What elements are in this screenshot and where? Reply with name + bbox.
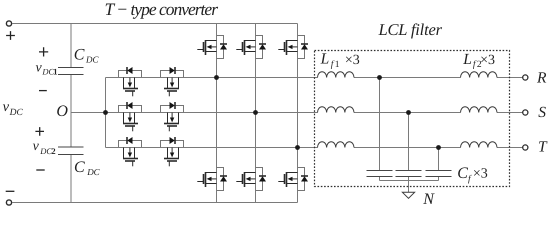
wire phase line R [106, 77, 523, 79]
svg-text:DC: DC [85, 55, 99, 65]
wire filter cap branch 1 [379, 78, 381, 181]
wire filter cap branch 2 [408, 113, 410, 181]
svg-text:v: v [33, 139, 40, 154]
mosfet Q6 (leg3 bottom switch) [278, 168, 308, 191]
svg-text:O: O [56, 103, 68, 120]
svg-text:2: 2 [51, 146, 55, 156]
node leg2 phase tap [253, 110, 258, 115]
mosfet Q4 (leg1 bottom switch) [197, 168, 227, 191]
svg-text:N: N [422, 191, 435, 208]
label plus vDC2 [35, 127, 44, 136]
inductor Lf2 phase T [461, 142, 497, 148]
label plus vDC1 [39, 47, 48, 56]
svg-text:×3: ×3 [480, 53, 495, 68]
inductor Lf1 phase R [318, 72, 354, 78]
mosfet Q7 (row R bidirectional left) [119, 67, 142, 96]
wire DC link vertical [70, 24, 72, 203]
terminal S [523, 110, 528, 115]
node leg3 phase tap [295, 145, 300, 150]
label minus vDC2 [36, 169, 44, 171]
LCL filter dashed box [315, 51, 510, 187]
svg-text:DC: DC [9, 108, 24, 118]
terminal R [523, 75, 528, 80]
svg-text:T: T [538, 139, 548, 156]
capacitor Cf phase R [367, 171, 393, 177]
wire leg 1 [216, 24, 218, 203]
mosfet Q10 (row S bidirectional right) [161, 102, 184, 131]
inductor Lf2 phase S [461, 107, 497, 113]
wire leg 3 [297, 24, 299, 203]
mosfet Q8 (row R bidirectional right) [161, 67, 184, 96]
svg-text:R: R [536, 70, 547, 87]
wire O bus vertical [105, 78, 107, 148]
wire filter cap branch 3 [438, 148, 440, 181]
mosfet Q9 (row S bidirectional left) [119, 102, 142, 131]
node O bus junction [103, 110, 108, 115]
svg-text:DC: DC [86, 167, 100, 177]
label minus bottom left [6, 190, 15, 192]
svg-text:L: L [462, 51, 472, 68]
wire top DC rail [12, 23, 298, 25]
node cap branch 3 tap [436, 145, 441, 150]
node leg1 phase tap [214, 75, 219, 80]
svg-text:×3: ×3 [473, 167, 488, 182]
svg-text:C: C [74, 47, 85, 64]
inductor Lf1 phase T [318, 142, 354, 148]
mosfet Q3 (leg3 top switch) [278, 36, 308, 59]
svg-text:v: v [3, 99, 10, 115]
capacitor CDC1 [58, 68, 84, 75]
inductor Lf2 phase R [461, 72, 497, 78]
node cap branch 1 tap [377, 75, 382, 80]
svg-text:C: C [457, 165, 468, 182]
mosfet Q5 (leg2 bottom switch) [236, 168, 266, 191]
capacitor Cf phase T [426, 171, 452, 177]
neutral point symbol (open triangle) [402, 192, 414, 198]
mosfet Q12 (row T bidirectional right) [161, 137, 184, 166]
svg-text:L: L [320, 51, 330, 68]
inductor Lf1 phase S [318, 107, 354, 113]
wire phase line T [106, 147, 523, 149]
capacitor Cf phase S [396, 171, 422, 177]
mosfet Q11 (row T bidirectional left) [119, 137, 142, 166]
wire phase line S [106, 112, 523, 114]
svg-text:DC: DC [39, 146, 52, 156]
svg-text:LCL filter: LCL filter [378, 20, 443, 39]
svg-text:×3: ×3 [345, 53, 360, 68]
wire neutral drop [408, 181, 410, 193]
negative DC input terminal [6, 200, 11, 205]
capacitor CDC2 [58, 147, 84, 155]
mosfet Q1 (leg1 top switch) [197, 36, 227, 59]
label plus top left [6, 31, 15, 40]
mosfet Q2 (leg2 top switch) [236, 36, 266, 59]
wire node O horizontal [71, 112, 106, 114]
wire leg 2 [255, 24, 257, 203]
wire capacitor common bus [380, 180, 439, 182]
terminal T [523, 145, 528, 150]
wire bottom DC rail [12, 202, 298, 204]
svg-text:1: 1 [335, 60, 340, 70]
svg-text:T − type converter: T − type converter [105, 0, 219, 19]
svg-text:1: 1 [53, 66, 57, 76]
svg-text:S: S [538, 104, 546, 121]
positive DC input terminal [6, 21, 11, 26]
node cap branch 2 tap [406, 110, 411, 115]
svg-text:f: f [468, 174, 472, 184]
svg-text:C: C [74, 159, 85, 176]
label minus vDC1 [39, 90, 47, 92]
